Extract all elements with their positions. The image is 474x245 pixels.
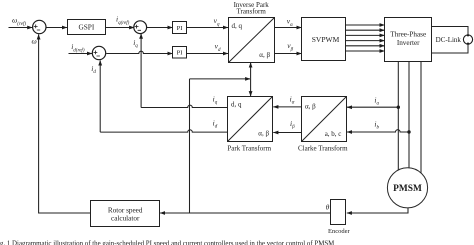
wire SVPWM to inverter gate 4 — [346, 40, 385, 42]
block Rotor speed calculator — [91, 201, 160, 227]
svg-text:iα: iα — [290, 95, 295, 106]
svg-text:iq(ref): iq(ref) — [116, 14, 130, 26]
svg-text:calculator: calculator — [111, 214, 140, 222]
block GSPI — [68, 20, 106, 35]
wire id vertical to SJ3 — [99, 60, 101, 132]
svg-text:Three-Phase: Three-Phase — [390, 30, 426, 38]
wire SVPWM to inverter gate 3 — [346, 34, 385, 36]
svg-text:vβ: vβ — [287, 41, 293, 52]
summing junction SJ1 — [33, 20, 46, 33]
svg-text:PI: PI — [177, 25, 183, 32]
wire phase C — [420, 62, 422, 189]
svg-text:iβ: iβ — [290, 119, 295, 130]
svg-text:ia: ia — [374, 95, 379, 106]
block PI1 — [173, 22, 187, 34]
wire PMSM to encoder — [347, 202, 408, 213]
junction dot ia — [397, 106, 400, 109]
wire SVPWM to inverter gate 2 — [346, 29, 385, 31]
svg-text:α, β: α, β — [258, 130, 269, 138]
wire SVPWM to inverter gate 1 — [346, 24, 385, 26]
svg-text:α, β: α, β — [305, 102, 316, 110]
svg-text:d, q: d, q — [231, 100, 242, 108]
svg-text:ω(ref): ω(ref) — [12, 16, 26, 27]
wire i alpha Clarke to Park — [273, 106, 301, 108]
wire omega ref input — [9, 27, 33, 29]
svg-text:PI: PI — [177, 49, 183, 56]
svg-text:Rotor speed: Rotor speed — [108, 206, 143, 214]
motor PMSM — [387, 168, 427, 208]
svg-text:PMSM: PMSM — [393, 184, 422, 194]
svg-text:id: id — [91, 64, 96, 75]
svg-text:g. 1 Diagrammatic illustration: g. 1 Diagrammatic illustration of the ga… — [0, 240, 334, 245]
svg-text:id: id — [213, 118, 218, 129]
wire omega feedback — [39, 34, 91, 213]
block SVPWM — [302, 18, 346, 61]
block Inverse Park Transform — [229, 18, 275, 63]
svg-text:ω: ω — [32, 37, 37, 46]
block Park Transform — [228, 97, 273, 142]
wire ib to Clarke with hop — [347, 130, 409, 132]
svg-text:d, q: d, q — [232, 22, 243, 30]
svg-text:id(ref): id(ref) — [71, 42, 85, 54]
svg-text:DC-Link: DC-Link — [436, 36, 462, 44]
wire theta to Inverse Park — [250, 63, 252, 79]
wire theta vertical — [189, 79, 191, 213]
block Encoder — [331, 200, 346, 225]
svg-text:Inverter: Inverter — [397, 39, 420, 47]
wire Inverse Park to SVPWM v beta — [275, 53, 302, 55]
source circle DC-Link — [463, 34, 472, 45]
wire iq horizontal with hop — [141, 105, 228, 107]
wire SVPWM to inverter gate 6 — [346, 50, 385, 52]
junction dot ib — [407, 130, 410, 133]
wire phase A — [397, 62, 399, 189]
wire SJ1 to GSPI — [47, 27, 68, 29]
svg-text:iq: iq — [213, 94, 218, 105]
wire encoder to rotor speed calculator — [160, 212, 331, 214]
summing junction SJ2 — [134, 21, 147, 34]
wire PI1 to Inverse Park vq — [187, 27, 228, 29]
svg-text:GSPI: GSPI — [78, 23, 94, 32]
wire theta to Park — [250, 79, 252, 96]
wire iq vertical to SJ2 — [140, 34, 142, 108]
svg-text:a, b, c: a, b, c — [325, 130, 342, 138]
svg-text:Encoder: Encoder — [328, 228, 350, 235]
svg-text:iq: iq — [133, 38, 138, 49]
wire i beta Clarke to Park — [273, 132, 301, 134]
wire SJ3 to PI2 with hop — [106, 51, 172, 53]
wire GSPI to SJ2 — [106, 27, 135, 29]
svg-text:α, β: α, β — [259, 51, 270, 59]
wire ia to Clarke — [347, 106, 398, 108]
wire id horizontal with hop — [100, 130, 228, 132]
block PI2 — [173, 47, 187, 59]
svg-text:θ: θ — [326, 202, 330, 211]
block Clarke Transform — [302, 97, 347, 142]
summing junction SJ3 — [92, 46, 105, 59]
diagonal Park — [228, 97, 273, 142]
diagonal Inverse Park — [229, 18, 275, 63]
svg-text:Park Transform: Park Transform — [227, 145, 271, 153]
wire SVPWM to inverter gate 5 — [346, 45, 385, 47]
svg-text:Clarke Transform: Clarke Transform — [298, 145, 348, 153]
svg-text:ib: ib — [374, 120, 379, 131]
block Three-Phase Inverter — [385, 18, 432, 62]
wire Inverse Park to SVPWM v alpha — [275, 27, 302, 29]
wire SJ2 to PI1 — [146, 27, 172, 29]
svg-text:Transform: Transform — [237, 8, 267, 16]
wire PI2 to Inverse Park vd — [187, 53, 228, 55]
diagonal Clarke — [302, 97, 347, 142]
svg-text:vd: vd — [215, 42, 221, 53]
block DC-Link — [432, 27, 469, 54]
svg-text:vα: vα — [287, 17, 293, 28]
wire phase B — [408, 62, 410, 189]
wire theta branch — [190, 78, 251, 80]
svg-text:vq: vq — [214, 16, 220, 27]
svg-text:SVPWM: SVPWM — [312, 35, 340, 44]
wire id ref input — [69, 53, 93, 55]
